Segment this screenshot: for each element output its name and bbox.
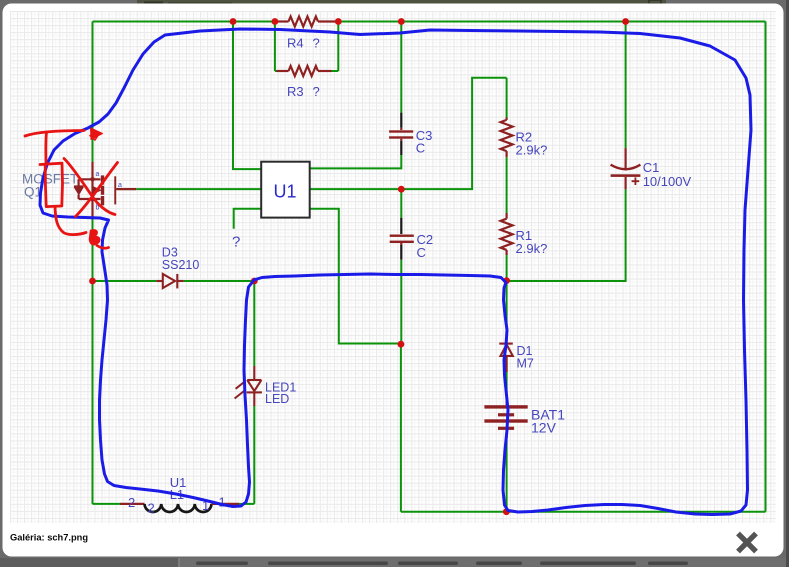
wire U1 right to R2 branch (310, 78, 507, 189)
wire C2 upper lead (400, 189, 402, 218)
svg-text:a: a (118, 182, 122, 189)
node top C3 (398, 18, 405, 25)
darker right outer edge (786, 0, 789, 567)
wire R2 upper lead (506, 78, 508, 118)
svg-text:C: C (417, 245, 426, 260)
wire left rail lower (92, 217, 94, 504)
capacitor C3 (389, 113, 413, 155)
svg-text:2: 2 (148, 501, 155, 516)
Q1 tiny pin labels (96, 171, 123, 212)
svg-text:LED: LED (265, 392, 289, 406)
op-amp/IC U1 box (261, 162, 310, 218)
red annotation arrow line (25, 131, 84, 137)
wire D1 to battery (506, 356, 508, 399)
wire C3 lower lead to U1 (310, 155, 402, 168)
wire battery branch upper (506, 281, 508, 336)
svg-text:?: ? (313, 84, 320, 99)
wire R3 loop left vertical (274, 22, 276, 72)
svg-text:2: 2 (128, 495, 135, 510)
svg-text:R3: R3 (287, 84, 304, 99)
label Q1 MOSFET (22, 172, 78, 200)
wire LED branch lower (253, 406, 255, 504)
wire ground vertical from C2 node (400, 344, 402, 512)
node R1 bottom (503, 277, 510, 284)
resistor R1 (506, 213, 508, 219)
pin numbers (128, 495, 226, 516)
red annotation scribble blob (90, 230, 100, 245)
svg-text:C: C (416, 141, 425, 156)
svg-text:R4: R4 (287, 36, 304, 51)
node top R-right (335, 18, 342, 25)
node C2 top (398, 186, 405, 193)
svg-text:C1: C1 (643, 160, 660, 175)
red annotation X stroke 1 (64, 159, 115, 215)
node BAT bottom (503, 508, 510, 515)
red annotation X stroke 2 (76, 163, 118, 217)
battery BAT1 (484, 399, 527, 437)
svg-text:?: ? (232, 234, 240, 251)
wire top rail right (338, 21, 766, 23)
wire bottom right bus (401, 511, 766, 513)
node top C1 (622, 18, 629, 25)
wire U1 top-left vertical (233, 22, 261, 170)
wire battery lower (506, 437, 508, 512)
top olive header bar of underlying page (137, 0, 666, 5)
close button X (738, 534, 756, 552)
wire C2 lower lead (400, 260, 402, 345)
junction dots (nodes) (89, 18, 629, 515)
resistor R2 (506, 118, 508, 120)
wire right rail (765, 22, 767, 512)
wire R3 loop right stub (332, 70, 339, 72)
svg-text:?: ? (313, 36, 320, 51)
red annotation rectangle (40, 163, 63, 206)
inductor U1/L1 winding (120, 504, 239, 512)
capacitor C2 (390, 218, 414, 260)
wire mid bus D3 row left (93, 280, 157, 282)
wire bottom left bus segment a (93, 503, 121, 505)
wire LED branch upper (253, 281, 255, 366)
wire R1 lower lead (506, 255, 508, 281)
wire top rail left (93, 21, 277, 23)
red annotation tail (97, 246, 109, 249)
wire R3 loop right vertical (337, 22, 339, 72)
wire bottom left bus segment b (239, 503, 254, 505)
svg-text:2.9k?: 2.9k? (516, 143, 548, 158)
node D3 left (89, 278, 96, 285)
diode D1 M7 (499, 336, 513, 372)
svg-text:12V: 12V (531, 420, 557, 436)
resistor R4 (275, 20, 289, 22)
svg-text:10/100V: 10/100V (643, 174, 692, 189)
resistor R3 (277, 70, 289, 72)
wire C1 branch lower (507, 189, 626, 281)
wire U1 lower-left pin (234, 209, 262, 229)
capacitor C1 (electrolytic) (611, 148, 641, 189)
red annotation arrowhead (91, 128, 103, 140)
node LED top (251, 278, 258, 285)
blue freehand annotation loop (40, 29, 751, 515)
wire mid bus D3 row right (184, 280, 255, 282)
svg-text:a: a (96, 171, 100, 178)
svg-text:2.9k?: 2.9k? (516, 241, 548, 256)
bottom page strip with blurred background text (0, 558, 786, 567)
diode D3 SS210 (156, 274, 183, 289)
wire R3 loop left stub (275, 70, 277, 72)
svg-text:Galéria: sch7.png: Galéria: sch7.png (10, 533, 88, 543)
wire C3 upper lead (400, 22, 402, 113)
wire R2-R1 link (506, 157, 508, 213)
transistor Q1 MOSFET (74, 162, 136, 217)
red annotation vertical link (44, 132, 48, 163)
svg-text:U1: U1 (274, 182, 297, 202)
svg-text:M7: M7 (517, 357, 534, 371)
svg-text:1: 1 (219, 495, 226, 510)
node top U1 (230, 18, 237, 25)
wire left rail upper (92, 22, 94, 163)
node C2 bottom (398, 341, 405, 348)
node top R-left (272, 18, 279, 25)
wire MOSFET drain to U1 (136, 188, 261, 190)
LED1 emission arrows (235, 381, 246, 398)
red annotation line to note (55, 207, 86, 235)
LED LED1 (235, 366, 262, 406)
svg-text:SS210: SS210 (162, 258, 200, 272)
wire C1 branch upper (625, 22, 627, 149)
wire U1 lower-right pin (310, 209, 401, 344)
